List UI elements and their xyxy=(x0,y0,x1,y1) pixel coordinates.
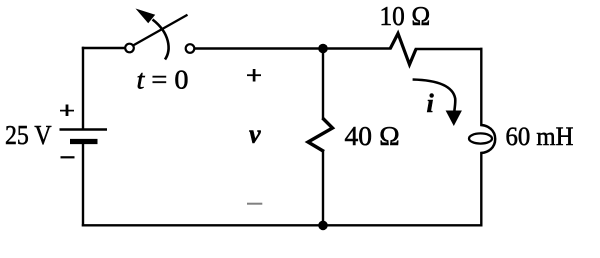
switch right terminal xyxy=(186,44,195,53)
resistor R2 40 ohm xyxy=(308,118,333,152)
svg-text:60 mH: 60 mH xyxy=(506,122,574,151)
inductor L1 60 mH xyxy=(469,125,495,153)
switch blade xyxy=(133,15,188,46)
battery minus sign xyxy=(61,156,75,158)
switch motion arc xyxy=(153,20,169,60)
node A (top junction) xyxy=(318,44,328,54)
label - of v xyxy=(247,203,262,205)
wire bottom segment xyxy=(83,224,481,226)
wire top-middle segment xyxy=(195,47,391,49)
svg-text:10 Ω: 10 Ω xyxy=(380,1,431,31)
svg-text:i: i xyxy=(427,89,435,118)
wire middle branch upper xyxy=(322,49,324,119)
wire left segment upper xyxy=(82,48,84,129)
wire middle branch lower xyxy=(322,152,324,226)
label + of v xyxy=(247,74,261,76)
wire right segment lower xyxy=(480,153,482,225)
switch arc arrowhead xyxy=(136,9,156,24)
battery plus sign xyxy=(60,105,74,117)
svg-text:v: v xyxy=(249,119,261,148)
svg-text:40 Ω: 40 Ω xyxy=(345,121,401,151)
svg-text:t = 0: t = 0 xyxy=(137,65,189,95)
wire top-right segment xyxy=(416,48,481,50)
resistor R1 10 ohm xyxy=(390,34,416,65)
switch left terminal xyxy=(125,44,134,53)
node B (bottom junction) xyxy=(318,221,328,231)
switch t=0 xyxy=(125,9,194,60)
wire left segment lower xyxy=(82,143,84,225)
voltage source V1 25 V (battery) xyxy=(60,130,108,142)
wire top-left segment xyxy=(83,47,125,49)
svg-text:25 V: 25 V xyxy=(5,120,52,150)
current arrow i xyxy=(413,80,462,127)
wire right segment upper xyxy=(480,49,482,125)
